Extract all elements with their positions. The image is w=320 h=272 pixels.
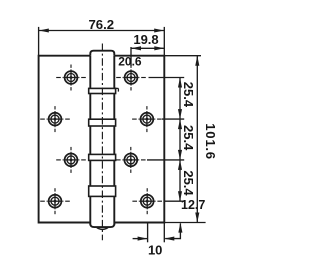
hole row 2 extension line	[162, 118, 184, 120]
hole row 3 extension line	[147, 159, 184, 161]
screw hole B (left leaf upper-mid)	[49, 113, 62, 126]
dim 101.6 line	[196, 56, 198, 223]
pin centerline	[101, 44, 103, 241]
dim 101.6 extension line bottom	[164, 222, 205, 224]
dim 25.4 chain line	[179, 78, 181, 202]
screw hole F (right leaf upper-mid)	[141, 113, 154, 126]
right leaf outline	[114, 56, 164, 223]
svg-text:20.6: 20.6	[118, 55, 142, 69]
dim 10 extension line left	[147, 223, 149, 242]
knuckle joint collar 2	[89, 119, 116, 126]
dim 101.6 extension line top	[164, 55, 201, 57]
pin top cap	[90, 51, 114, 56]
dim 12.7 leader	[165, 223, 180, 238]
screw hole D (left leaf bottom)	[49, 195, 62, 208]
screw hole H (right leaf bottom)	[141, 195, 154, 208]
hole row 1 extension line	[149, 77, 185, 79]
svg-text:19.8: 19.8	[133, 32, 158, 47]
dim 76.2 line	[39, 30, 165, 32]
svg-text:10: 10	[148, 243, 162, 258]
screw hole C (left leaf lower-mid)	[65, 154, 78, 167]
dim 10 extension line right	[163, 223, 165, 242]
knuckle barrel sides	[89, 56, 91, 226]
pin bottom cap	[90, 223, 114, 228]
screw hole E (right leaf top)	[125, 71, 138, 84]
dim 76.2 extension line right	[163, 27, 165, 56]
dim 19.8 line	[131, 47, 164, 49]
knuckle joint collar 1	[89, 88, 116, 93]
svg-text:101.6: 101.6	[203, 123, 218, 160]
svg-text:25.4: 25.4	[181, 170, 196, 196]
screw hole A (left leaf top)	[65, 71, 78, 84]
knuckle joint tick	[114, 87, 119, 89]
svg-text:25.4: 25.4	[181, 82, 196, 108]
dim 10 arrows	[133, 238, 148, 240]
svg-text:25.4: 25.4	[181, 125, 196, 151]
screw hole G (right leaf lower-mid)	[124, 154, 137, 167]
hole row 4 extension line	[164, 200, 185, 202]
svg-text:76.2: 76.2	[88, 17, 114, 32]
svg-text:12.7: 12.7	[181, 198, 205, 212]
dim 19.8 extension line (hole E centerline)	[130, 47, 132, 66]
knuckle joint collar 3	[89, 154, 116, 160]
knuckle joint collar 4	[89, 186, 116, 196]
left leaf outline	[39, 56, 91, 223]
dim 76.2 extension line left	[38, 27, 40, 56]
